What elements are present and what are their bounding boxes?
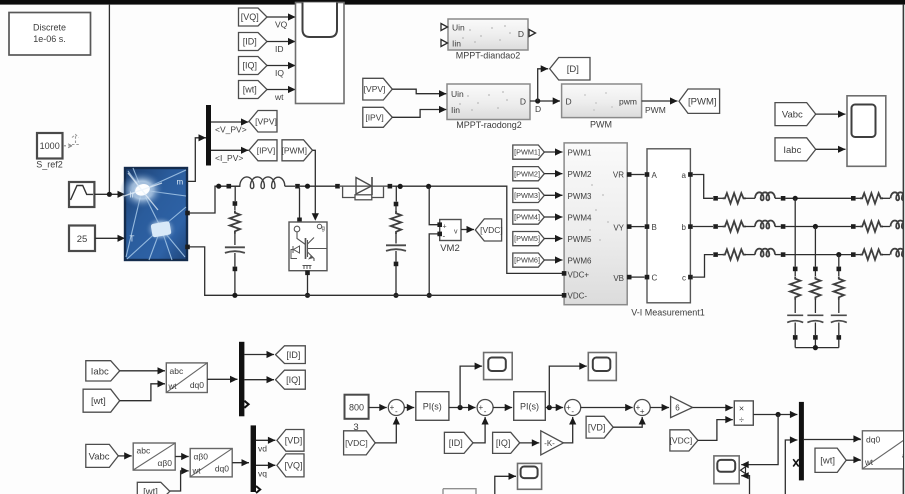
svg-text:-: - (571, 407, 574, 416)
svg-text:+: + (443, 224, 447, 231)
from tag Iabc monitor (775, 138, 816, 161)
gain 6 (671, 396, 693, 417)
inverter block (564, 143, 627, 305)
wire wt to abc-dq0 (120, 384, 165, 401)
arrow Vabc into scope (838, 111, 846, 118)
inductor L1 wire right (285, 185, 295, 187)
arrow ID into sum2 (482, 417, 489, 425)
shunt branch c top port (837, 267, 842, 272)
arrow PWM2 (555, 170, 563, 177)
wire IGBT emitter to bottom rail (307, 275, 309, 295)
window top bar (0, 0, 905, 5)
wire R1 to C1 (234, 233, 236, 245)
wire VR to A (632, 174, 645, 176)
arrow into demux Idq (230, 376, 238, 383)
from tag PWM1 (513, 145, 545, 159)
svg-text:25: 25 (77, 234, 88, 245)
svg-text:VDC-: VDC- (568, 292, 588, 301)
shunt branch c wire (838, 271, 840, 276)
wire PV m to bus selector (187, 138, 206, 182)
shunt capacitor b (807, 315, 823, 322)
svg-text:a: a (682, 171, 687, 180)
svg-text:A: A (652, 171, 658, 180)
arrow into demux Vdq (242, 459, 250, 466)
wire [VQ] to scope (267, 16, 296, 18)
V-I Measurement1 block (645, 149, 693, 303)
wire ab0dq0 to demux (232, 462, 249, 464)
wire sum3 to sum4 (581, 407, 633, 409)
wire up to scope pi2 (549, 366, 587, 407)
junction neutral (813, 345, 818, 350)
arrow PWM5 (555, 235, 563, 242)
wire phase a to junction (785, 197, 851, 199)
inductor L phase b (755, 221, 775, 229)
diode D1 right port (388, 184, 393, 189)
svg-text:[VQ]: [VQ] (284, 461, 302, 471)
junction on top rail (216, 184, 221, 189)
resistor R2 phase c (860, 249, 883, 259)
wire phase c to junction (785, 254, 851, 256)
from tag [IQ] to scope (239, 57, 268, 75)
demux bar Vdq (251, 425, 256, 492)
shunt wire phase a down (794, 198, 796, 266)
svg-text:+: + (478, 403, 483, 412)
resistor R2 phase b (860, 221, 883, 231)
RL branch2 phase a left port (851, 196, 856, 201)
arrow into dq0-abc (853, 435, 861, 442)
capacitor C1 (225, 247, 245, 253)
wire bus to IPV goto (211, 149, 249, 151)
shunt branch b top port (813, 267, 818, 272)
arrow into ID goto (267, 351, 275, 358)
wire PWM2 to inverter (544, 173, 562, 175)
inverter VR port (627, 172, 632, 177)
wire ID to sum2 (473, 417, 485, 443)
svg-text:VM2: VM2 (440, 243, 460, 254)
svg-text:αβ0: αβ0 (194, 452, 209, 462)
svg-text:[PWM2]: [PWM2] (514, 169, 540, 178)
from tag VPV feed (363, 78, 393, 100)
svg-text:[PWM5]: [PWM5] (514, 234, 540, 243)
svg-text:[VDC]: [VDC] (670, 435, 693, 445)
from tag PWM2 (513, 167, 545, 181)
shunt branch a wire (794, 271, 796, 276)
transform block dq0-abc clipped (862, 431, 905, 469)
wire demux to ID goto (244, 354, 274, 356)
svg-text:PWM4: PWM4 (568, 214, 593, 223)
junction after PI2 (547, 405, 552, 410)
svg-text:[IQ]: [IQ] (496, 438, 511, 448)
wire PWM4 to inverter (544, 216, 562, 218)
IGBT top port (297, 218, 302, 223)
svg-text:-: - (484, 407, 487, 416)
constant S_ref2 1000 (37, 133, 63, 159)
arrow into IQ goto (267, 376, 275, 383)
scope Vabc-Iabc (847, 96, 886, 167)
wire wt to ab0-dq0 (170, 471, 189, 491)
shunt wire c-port b (814, 323, 816, 336)
PI controller 2 (514, 392, 546, 421)
junction RC1 bottom (232, 293, 237, 298)
svg-text:[IPV]: [IPV] (257, 145, 275, 155)
svg-text:PWM5: PWM5 (568, 235, 593, 244)
svg-text:[PWM6]: [PWM6] (514, 256, 540, 265)
RC branch1 bottom port (233, 267, 238, 272)
arrow VD into sum4 (639, 417, 646, 425)
voltage measurement VM2 (437, 220, 461, 241)
RL branch2 phase c wire2 (882, 254, 890, 256)
svg-text:PWM: PWM (590, 120, 612, 130)
goto tag VPV (249, 111, 277, 133)
block MPPT-raodong2 (447, 84, 530, 120)
partial block bottom edge (443, 489, 476, 494)
svg-text:Vabc: Vabc (782, 110, 803, 121)
svg-text:pwm: pwm (619, 97, 637, 107)
RC branch2 top port (394, 202, 399, 207)
goto tag VD (277, 430, 304, 452)
wire VD to sum4 (613, 417, 642, 427)
arrow ID into scope (288, 38, 296, 45)
junction after PI1 (458, 405, 463, 410)
shunt wire phase b down (814, 227, 816, 267)
shunt wire to neutral b (814, 340, 816, 348)
svg-text:[PWM4]: [PWM4] (514, 213, 540, 222)
svg-text:T: T (130, 235, 135, 244)
RL branch phase b right port (781, 224, 786, 229)
inverter VDC+ port (562, 271, 567, 276)
resistor R phase c (723, 249, 746, 259)
svg-text:×: × (739, 404, 744, 414)
junction node D (535, 98, 540, 103)
arrow VQ into scope (288, 13, 296, 20)
wire junction down to scope3 (741, 415, 778, 465)
sum block sum3 (565, 400, 581, 416)
junction phase a (793, 196, 798, 201)
svg-text:Iin: Iin (451, 105, 460, 115)
svg-text:[wt]: [wt] (243, 85, 257, 95)
shunt resistor a (790, 277, 800, 300)
wire phase a from V-I (693, 175, 713, 199)
svg-text:b: b (682, 223, 687, 232)
svg-text:S_ref2: S_ref2 (36, 160, 63, 170)
RC branch1 wire to resistor (234, 206, 236, 211)
goto tag IQ (276, 370, 306, 389)
junction product out (776, 412, 781, 417)
wire bus to VPV goto (211, 121, 249, 123)
inductor L1 wire left (231, 185, 240, 187)
inverter VB port (627, 275, 632, 280)
shunt branch c bottom port (837, 335, 842, 340)
svg-text:Vabc: Vabc (89, 451, 110, 462)
svg-text:+: + (566, 403, 571, 412)
wire wt to dq0-abc (846, 459, 861, 461)
svg-text:÷: ÷ (739, 415, 744, 425)
RL branch2 phase b left port (851, 224, 856, 229)
wire PV plus to top rail (190, 186, 241, 213)
powergui block Discrete (9, 13, 91, 56)
wire Iabc to scope (816, 148, 846, 150)
demux Idq hook (244, 401, 248, 408)
arrow wt input (158, 380, 166, 387)
wire [wt] to scope (267, 89, 296, 91)
open output arrow D (529, 30, 536, 37)
goto tag D (550, 58, 590, 81)
svg-text:[VDC]: [VDC] (480, 225, 503, 235)
RC branch2 bottom port (394, 262, 399, 267)
sum block sum2 (477, 400, 493, 416)
dashed unconnected line from S_ref2 (63, 135, 79, 148)
arrow into abc-ab0 (124, 452, 132, 459)
svg-text:dq0: dq0 (190, 380, 204, 390)
wire gainK to sum3 (563, 417, 572, 443)
arrow wt into scope (288, 86, 296, 93)
PV output port - (185, 245, 190, 250)
arrow into scope3 right (741, 461, 749, 468)
from tag PWM6 (513, 253, 545, 267)
RL branch2 phase b wire (856, 226, 860, 228)
shunt branch a bottom port (793, 335, 798, 340)
svg-text:[IPV]: [IPV] (365, 112, 383, 122)
shunt branch a top port (793, 267, 798, 272)
wire PI2 to sum3 (545, 407, 563, 409)
from tag VDC fb1 (344, 431, 376, 455)
RL branch2 phase c wire (856, 254, 860, 256)
svg-text:1e-06 s.: 1e-06 s. (33, 34, 66, 44)
RL branch phase a wire3 (775, 197, 781, 199)
shunt wire phase c down (838, 255, 840, 267)
product divide block (734, 401, 753, 425)
svg-text:800: 800 (349, 403, 364, 413)
RL branch phase b wire2 (745, 226, 755, 228)
svg-text:dq0: dq0 (866, 435, 880, 445)
resistor R1 vertical (230, 211, 240, 234)
wire VDC2 to product (698, 420, 733, 441)
svg-text:D: D (520, 97, 526, 107)
svg-text:[ID]: [ID] (449, 438, 463, 448)
wire mux to dq0-abc (804, 439, 861, 441)
sum block sum1 (388, 400, 404, 416)
scope4 bottom (518, 463, 542, 489)
svg-text:B: B (652, 223, 657, 232)
svg-text:[ID]: [ID] (243, 37, 257, 47)
diode D1 left port (335, 184, 340, 189)
RC branch2 bottom wire (395, 266, 397, 295)
mux unconnected in3 x (793, 459, 799, 466)
RL branch phase b left port (713, 224, 718, 229)
svg-text:PI(s): PI(s) (520, 402, 539, 412)
svg-text:[PWM]: [PWM] (282, 145, 308, 155)
arrow into scope4 (509, 473, 517, 480)
arrow into ab0-dq0 (181, 453, 189, 460)
svg-text:g: g (322, 226, 325, 232)
svg-text:PWM1: PWM1 (568, 149, 593, 158)
open input arrow Uin (441, 24, 448, 31)
from tag wt dq (83, 389, 120, 412)
shunt wire r-c a (794, 299, 796, 313)
arrow Iabc into scope (838, 146, 846, 153)
svg-text:[VPV]: [VPV] (364, 84, 386, 94)
svg-text:[IQ]: [IQ] (286, 375, 301, 385)
wire PWM5 to inverter (544, 238, 562, 240)
wire [IQ] to scope (267, 65, 296, 67)
svg-text:-: - (443, 232, 446, 241)
wire from top into Ir node (108, 5, 110, 195)
RL branch phase a left port (713, 196, 718, 201)
inductor L2 phase a clipped (891, 192, 905, 200)
PI controller 1 (416, 392, 449, 421)
svg-text:IQ: IQ (275, 68, 284, 78)
svg-text:PWM6: PWM6 (568, 257, 593, 266)
from tag Vabc monitor (775, 103, 816, 126)
arrow into D goto (541, 65, 549, 72)
resistor R phase a (723, 193, 746, 203)
PV output port + (185, 211, 190, 216)
window right border (902, 5, 904, 494)
wire phase c from V-I (693, 255, 713, 278)
svg-text:abc: abc (137, 446, 151, 456)
block MPPT-diandao2 (448, 19, 528, 50)
from tag wt ab partial (137, 482, 170, 494)
from tag IPV feed (363, 107, 393, 127)
wire VDC to sum1 (375, 417, 396, 443)
resistor R phase b (723, 221, 746, 231)
wire phase b from V-I (693, 226, 713, 228)
goto tag IPV (249, 140, 277, 161)
svg-text:VQ: VQ (275, 20, 288, 30)
wire PWM3 to inverter (544, 194, 562, 196)
shunt capacitor a (787, 315, 803, 322)
svg-text:MPPT-diandao2: MPPT-diandao2 (456, 51, 521, 61)
wire bottom to scope4 (495, 476, 516, 494)
arrow into sum4 (625, 404, 633, 411)
arrow IQ into scope (288, 62, 296, 69)
RC branch1 bottom wire (234, 271, 236, 295)
svg-text:αβ0: αβ0 (157, 458, 172, 468)
svg-text:[VD]: [VD] (588, 422, 606, 432)
wire bottom to scope3 in2 (741, 476, 749, 494)
svg-text:wt: wt (864, 458, 874, 467)
svg-text:6: 6 (675, 404, 680, 413)
from tag Iabc dq (86, 361, 120, 381)
series RC branch1 top wire (234, 186, 236, 201)
arrow into IGBT gate (312, 213, 319, 221)
arrow wt into dq0-abc (853, 456, 861, 463)
scope3 open mid port (741, 467, 746, 474)
from tag PWM4 (513, 210, 545, 224)
RL branch phase c wire3 (775, 254, 781, 256)
scope after PI2 (588, 353, 616, 381)
svg-text:vq: vq (258, 469, 267, 479)
transform block alphabeta-dq0 (190, 449, 232, 477)
wire C2 to port (395, 251, 397, 262)
wire demux to VD goto (256, 439, 275, 441)
wire 25 to PV T (95, 237, 125, 239)
arrow into product x (725, 404, 733, 411)
svg-text:wt: wt (274, 92, 284, 102)
arrow into MPPT Uin (439, 90, 447, 97)
arrow into scope pi2 (579, 363, 587, 370)
arrow into gainK (532, 439, 540, 446)
RL branch phase a wire1 (718, 197, 723, 199)
svg-text:<I_PV>: <I_PV> (215, 153, 243, 163)
svg-text:Iin: Iin (452, 39, 461, 49)
VM2 minus wire (429, 234, 440, 295)
wire PWM1 to inverter (544, 151, 562, 153)
svg-text:VB: VB (613, 274, 624, 283)
bottom rail (190, 247, 563, 295)
inductor L2 phase c clipped (891, 249, 905, 257)
wire IPV to MPPT Iin (392, 110, 446, 118)
RL branch phase c left port (713, 252, 718, 257)
svg-text:[VQ]: [VQ] (241, 12, 259, 22)
arrow into VDC goto (467, 226, 475, 233)
svg-text:[IQ]: [IQ] (242, 61, 257, 71)
wire signal builder to PV Ir (94, 193, 125, 195)
resistor R2 phase a (860, 193, 883, 203)
svg-text:D: D (566, 97, 572, 107)
shunt wire to neutral c (838, 340, 840, 348)
wire up to scope pi1 (460, 366, 482, 407)
inductor L2 phase b clipped (891, 221, 905, 229)
from tag [ID] to scope (239, 33, 268, 51)
svg-text:D: D (535, 104, 541, 114)
from tag IQ fb (493, 432, 520, 453)
transform block abc-alphabeta (133, 443, 175, 470)
from tag Vabc ab (86, 444, 119, 467)
arrow into PWM goto (670, 97, 678, 104)
svg-text:c: c (682, 274, 686, 283)
wire PI1 to sum2 (449, 407, 476, 409)
shunt branch b wire (814, 271, 816, 276)
from tag wt br (815, 448, 846, 472)
RL branch2 phase a wire2 (882, 197, 890, 199)
scope3 flipped (714, 456, 739, 484)
shunt wire r-c c (838, 299, 840, 313)
inductor L1 (240, 177, 285, 189)
junction RC2 tap (398, 184, 403, 189)
arrow into VQ goto (268, 462, 276, 469)
VM2 vertical wire (429, 186, 440, 224)
bus selector bar (206, 105, 211, 166)
svg-text:PWM3: PWM3 (568, 192, 593, 201)
arrow into PWM block (553, 97, 561, 104)
svg-text:Iabc: Iabc (91, 366, 109, 377)
wire C1 to bottom port (234, 253, 236, 267)
junction RC2 bottom (393, 293, 398, 298)
gain -K- (541, 431, 564, 455)
arrow into sum2 (468, 404, 476, 411)
wire VB to C (632, 276, 645, 278)
top rail inductor to diode (300, 185, 336, 187)
shunt resistor c (834, 277, 844, 300)
arrow into mux in1 (790, 411, 798, 418)
goto tag VDC (475, 219, 502, 241)
arrow gainK into sum3 (569, 417, 576, 425)
svg-text:ID: ID (275, 44, 284, 54)
IGBT block (289, 222, 327, 271)
svg-text:VR: VR (613, 171, 624, 180)
svg-text:VY: VY (613, 224, 624, 233)
RC branch1 top port (233, 201, 238, 206)
wire phase b to junction (785, 226, 851, 228)
wire 800 to sum1 (369, 407, 387, 409)
junction VM2 tap (426, 184, 431, 189)
svg-text:Ir: Ir (130, 191, 135, 200)
svg-text:v: v (454, 229, 458, 236)
arrow into PI2 (505, 404, 513, 411)
transform block abc-dq0 (166, 363, 207, 393)
arrow into VPV goto (241, 118, 249, 125)
